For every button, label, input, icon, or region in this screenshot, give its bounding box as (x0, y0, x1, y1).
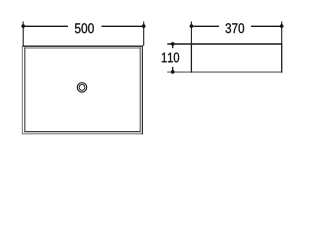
dimension 110 extension line top (167, 43, 191, 45)
dimension 110 line bottom segment (172, 67, 174, 72)
dimension 500 dot left (22, 24, 25, 27)
basin side view bottom edge (191, 71, 282, 73)
dimension 110 line top segment (172, 44, 174, 48)
drain hole inner circle (79, 85, 85, 91)
dimension 500 extension line left (22, 22, 24, 46)
basin top view outer rim top edge (22, 45, 143, 47)
basin side view right edge (281, 43, 283, 72)
dimension 500 label (75, 23, 94, 33)
dimension 110 label (162, 53, 179, 63)
dimension 370 dot right (280, 24, 283, 27)
dimension 370 dot left (190, 24, 193, 27)
basin side view left edge (190, 43, 192, 72)
dimension 110 dot top (171, 42, 174, 45)
dimension 500 dot right (142, 24, 145, 27)
dimension 110 dot bottom (171, 70, 174, 73)
dimension 370 line left segment (191, 25, 219, 27)
basin top view outer rim bottom edge (22, 133, 143, 135)
dimension 370 extension line left (190, 22, 192, 44)
basin top view inner rim left edge (24, 47, 26, 132)
dimension 370 label (226, 23, 245, 33)
basin side view top edge (191, 43, 282, 45)
drain hole outer circle (77, 83, 86, 92)
basin top view outer rim right edge (141, 45, 143, 134)
dimension 500 line right segment (102, 25, 144, 27)
dimension 110 extension line bottom (167, 71, 191, 73)
dimension 370 line right segment (251, 25, 282, 27)
basin top view inner rim bottom edge (24, 131, 141, 133)
dimension 500 extension line right (143, 22, 145, 46)
basin top view inner rim top edge (24, 47, 141, 49)
dimension 370 extension line right (281, 22, 283, 44)
dimension 500 line left segment (23, 25, 68, 27)
basin top view inner rim right edge (139, 47, 141, 132)
basin top view outer rim left edge (21, 45, 23, 134)
